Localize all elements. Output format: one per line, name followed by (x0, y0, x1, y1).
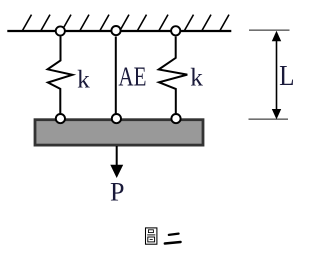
spring k right (159, 37, 188, 114)
caption glyph 二 (165, 234, 181, 244)
svg-text:k: k (77, 65, 90, 93)
pin circle top-left (56, 26, 65, 35)
load arrow line P (116, 146, 118, 169)
dimension top extension bar (249, 29, 290, 31)
spring k left (48, 37, 73, 114)
svg-text:k: k (190, 64, 203, 92)
svg-text:P: P (110, 177, 124, 206)
hatch marks (23, 15, 230, 31)
dimension bottom extension bar (249, 118, 289, 120)
pin circle top-right (171, 26, 180, 35)
pin circle top-middle (111, 26, 120, 35)
dimension line L (276, 40, 278, 110)
ceiling line (7, 30, 231, 32)
gray bar (35, 120, 203, 145)
pin circle bottom-left (56, 114, 65, 123)
load arrowhead (110, 165, 123, 178)
svg-text:L: L (279, 60, 294, 92)
pin circle bottom-right (171, 114, 180, 123)
svg-text:AE: AE (118, 62, 146, 92)
dimension arrowhead down (272, 109, 281, 119)
pin circle bottom-middle (112, 114, 121, 123)
rod AE (115, 37, 117, 114)
dimension arrowhead up (272, 31, 281, 41)
caption glyph 圖 (146, 228, 157, 244)
